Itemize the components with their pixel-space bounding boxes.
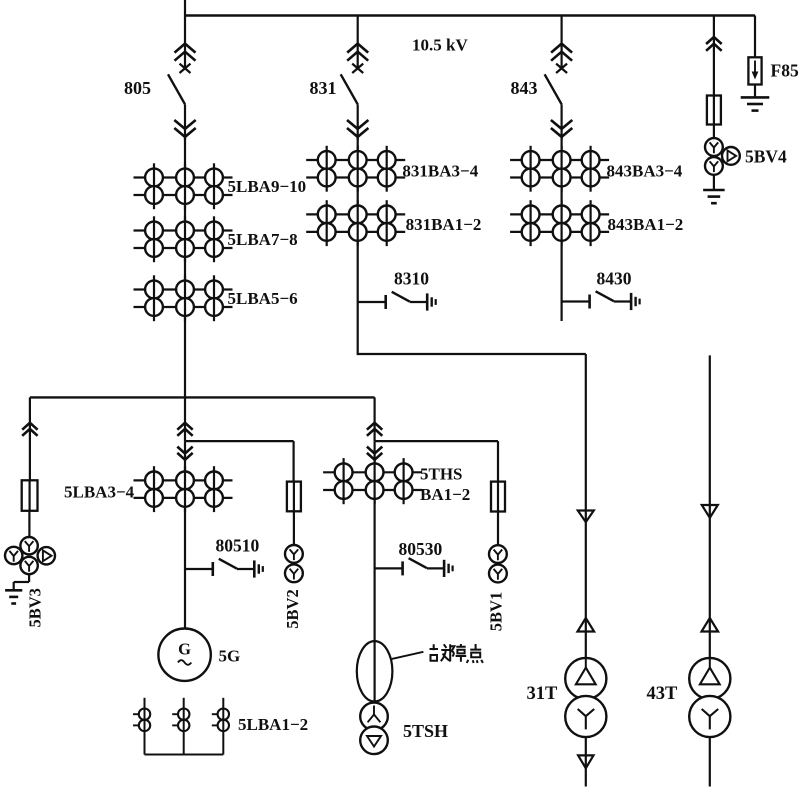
down arrow below 31T [578,755,593,768]
isolating contact (lower) of breaker 843 [551,120,572,129]
wire: fuse to 5BV4 [713,125,715,140]
svg-text:5G: 5G [219,647,241,666]
isolating contact (lower) fault branch [367,447,382,454]
voltage transformer 5BV4 secondary winding Y [705,157,723,175]
wire: 5BV4 to ground [713,175,715,190]
wire: feeder 843 below breaker [560,104,562,140]
voltage transformer 5BV1 winding Y (bottom) [489,565,507,583]
cable sealing end (up arrow) on 31T feeder [578,618,595,632]
cable sealing end (down arrow) on 43T feeder [702,505,718,518]
wire: feeder 831 below breaker [357,104,359,140]
earthing switch 8310 [358,301,386,303]
isolating contact (lower) of breaker 805 [174,120,195,129]
svg-text:5BV2: 5BV2 [283,589,302,628]
wire: 31T feeder vertical [585,511,587,787]
wire: fault branch drop from lower busbar [374,397,376,441]
svg-text:831BA1−2: 831BA1−2 [406,215,482,234]
isolating contact of PT branch [706,37,722,44]
circuit breaker 831 fixed contact x-mark [352,64,363,73]
ground of 5BV4 [703,189,725,192]
fuse of 5BV3 [22,480,38,511]
generator 5G [158,629,210,681]
wire: 43T feeder vertical [709,355,711,786]
voltage transformer 5BV4 open-delta winding [722,147,740,165]
isolating contact (upper) of breaker 843 [551,44,572,53]
voltage transformer 5BV1 winding Y (top) [489,545,507,563]
svg-text:831: 831 [310,78,337,98]
voltage transformer 5BV3 open-delta winding [38,547,55,564]
isolating contact of 5BV3 branch [22,423,37,430]
svg-text:8430: 8430 [597,269,632,289]
ground of F85 [741,96,770,99]
isolating contact (upper) generator breaker [177,423,192,430]
current transformer group 831BA3-4 [306,159,405,161]
current transformer group 5LBA9-10 [134,176,233,178]
svg-text:80510: 80510 [216,536,260,556]
isolating contact (lower) of breaker 831 [347,120,368,129]
svg-text:5THS: 5THS [420,465,463,484]
current transformer group 5LBA7-8 [134,229,233,231]
isolating contact (upper) of breaker 805 [175,44,196,53]
current transformer group 831BA1-2 [306,213,405,215]
wire: fuse to 5BV1 [497,512,499,546]
surge arrester F85 [748,57,761,84]
transformer 43T delta winding [689,658,730,699]
svg-text:5BV3: 5BV3 [26,588,45,627]
wire: arrester to ground [754,85,756,98]
wire: 831 feeder vertical [357,137,359,355]
wire: feeder 805 drop from busbar [184,16,186,69]
svg-text:5LBA9−10: 5LBA9−10 [228,177,307,196]
label fault point (Chinese) [430,644,451,661]
isolating contact (upper) fault branch [367,423,382,430]
wire: feeder 843 drop from busbar [560,16,562,69]
svg-text:843BA3−4: 843BA3−4 [607,162,683,181]
fuse of 5BV1 [491,482,505,512]
svg-text:43T: 43T [647,684,679,704]
svg-text:31T: 31T [527,684,559,704]
svg-text:8310: 8310 [394,269,429,289]
current transformer group 5LBA5-6 [134,288,233,290]
voltage transformer 5BV4 primary winding Y [705,138,723,156]
transformer 31T delta winding [565,658,606,699]
voltage transformer 5BV3 winding Y (left) [5,547,22,564]
voltage transformer 5BV3 winding Y (top) [20,537,37,554]
circuit breaker 843 fixed contact x-mark [556,64,567,73]
circuit breaker 805 fixed contact x-mark [180,64,191,73]
wire: 843 feeder vertical [560,137,562,321]
svg-text:10.5 kV: 10.5 kV [412,36,468,55]
current transformer group 843BA1-2 [510,213,609,215]
wire: 831 to 31T transformer link [358,353,586,355]
fuse of 5BV2 [287,482,301,512]
svg-text:5LBA7−8: 5LBA7−8 [228,230,298,249]
wire: PT branch drop from busbar [713,16,715,96]
current transformer 5LBA1-2 phase A [133,713,139,715]
busbar 10.5 kV [184,14,755,17]
svg-text:F85: F85 [771,61,799,81]
isolating contact (upper) of breaker 831 [347,44,368,53]
earthing switch 80530 [375,567,403,569]
svg-text:5BV4: 5BV4 [745,147,787,167]
svg-text:843: 843 [511,78,538,98]
wire: feeder 805 below breaker [184,104,186,140]
generator busbar (lower tie) [30,396,375,398]
wire: 5LBA1-2 common bar [145,754,224,756]
current transformer group 5THS BA1-2 [323,471,422,473]
svg-text:831BA3−4: 831BA3−4 [402,162,478,181]
wire: 5BV3 neutral to ground [28,574,30,582]
transformer 31T wye winding [565,696,606,737]
wire: fuse to 5BV2 [293,511,295,545]
current transformer 5LBA1-2 phase B [172,713,178,715]
svg-text:5BV1: 5BV1 [486,592,505,631]
current transformer 5LBA1-2 phase C [212,713,218,715]
wire: tap to 5BV2 [185,440,294,442]
fault point leader line [392,652,424,659]
wire: generator feeder vertical [184,441,186,629]
cable sealing end (down arrow) on 31T feeder [578,511,594,523]
wire: tap to 5BV1 [375,440,498,442]
svg-text:843BA1−2: 843BA1−2 [608,215,684,234]
svg-text:5LBA5−6: 5LBA5−6 [228,289,298,308]
fuse of 5BV4 [707,96,721,125]
earthing switch 80510 [185,568,213,570]
wire: generator drop from lower busbar [184,397,186,441]
svg-text:G: G [178,640,191,659]
grounding transformer 5TSH bottom winding [360,727,388,755]
voltage transformer 5BV2 winding Y (top) [285,545,303,563]
isolating contact (lower) generator breaker [177,447,192,454]
wire: fuse to 5BV3 [28,511,30,538]
earthing switch 8430 [562,300,590,302]
voltage transformer 5BV3 winding Y (bottom) [20,557,37,574]
current transformer group 843BA3-4 [510,159,609,161]
wire: fault branch vertical [374,441,376,702]
svg-text:5LBA3−4: 5LBA3−4 [64,483,135,502]
svg-text:5LBA1−2: 5LBA1−2 [238,715,308,734]
wire: 5BV3 branch drop [29,397,31,480]
cable sealing end (up arrow) on 43T feeder [702,618,719,632]
wire: feeder 831 drop from busbar [357,16,359,69]
fault point ellipse [357,641,393,701]
svg-text:80530: 80530 [399,539,443,559]
wire: arrester branch drop [754,16,756,58]
circuit breaker 843 blade [545,74,562,104]
voltage transformer 5BV2 winding Y (bottom) [285,564,303,582]
current transformer group 5LBA3-4 [134,479,233,481]
grounding transformer 5TSH top winding [360,703,388,731]
svg-text:805: 805 [124,78,151,98]
svg-text:5TSH: 5TSH [403,721,448,741]
circuit breaker 831 blade [341,74,358,104]
wire: 805 feeder vertical through CT groups [184,137,186,398]
transformer 43T wye winding [689,696,730,737]
svg-text:BA1−2: BA1−2 [420,485,470,504]
circuit breaker 805 blade [168,74,185,104]
wire: incoming supply stub above busbar [184,0,186,16]
ground of 5BV3 [5,589,22,592]
